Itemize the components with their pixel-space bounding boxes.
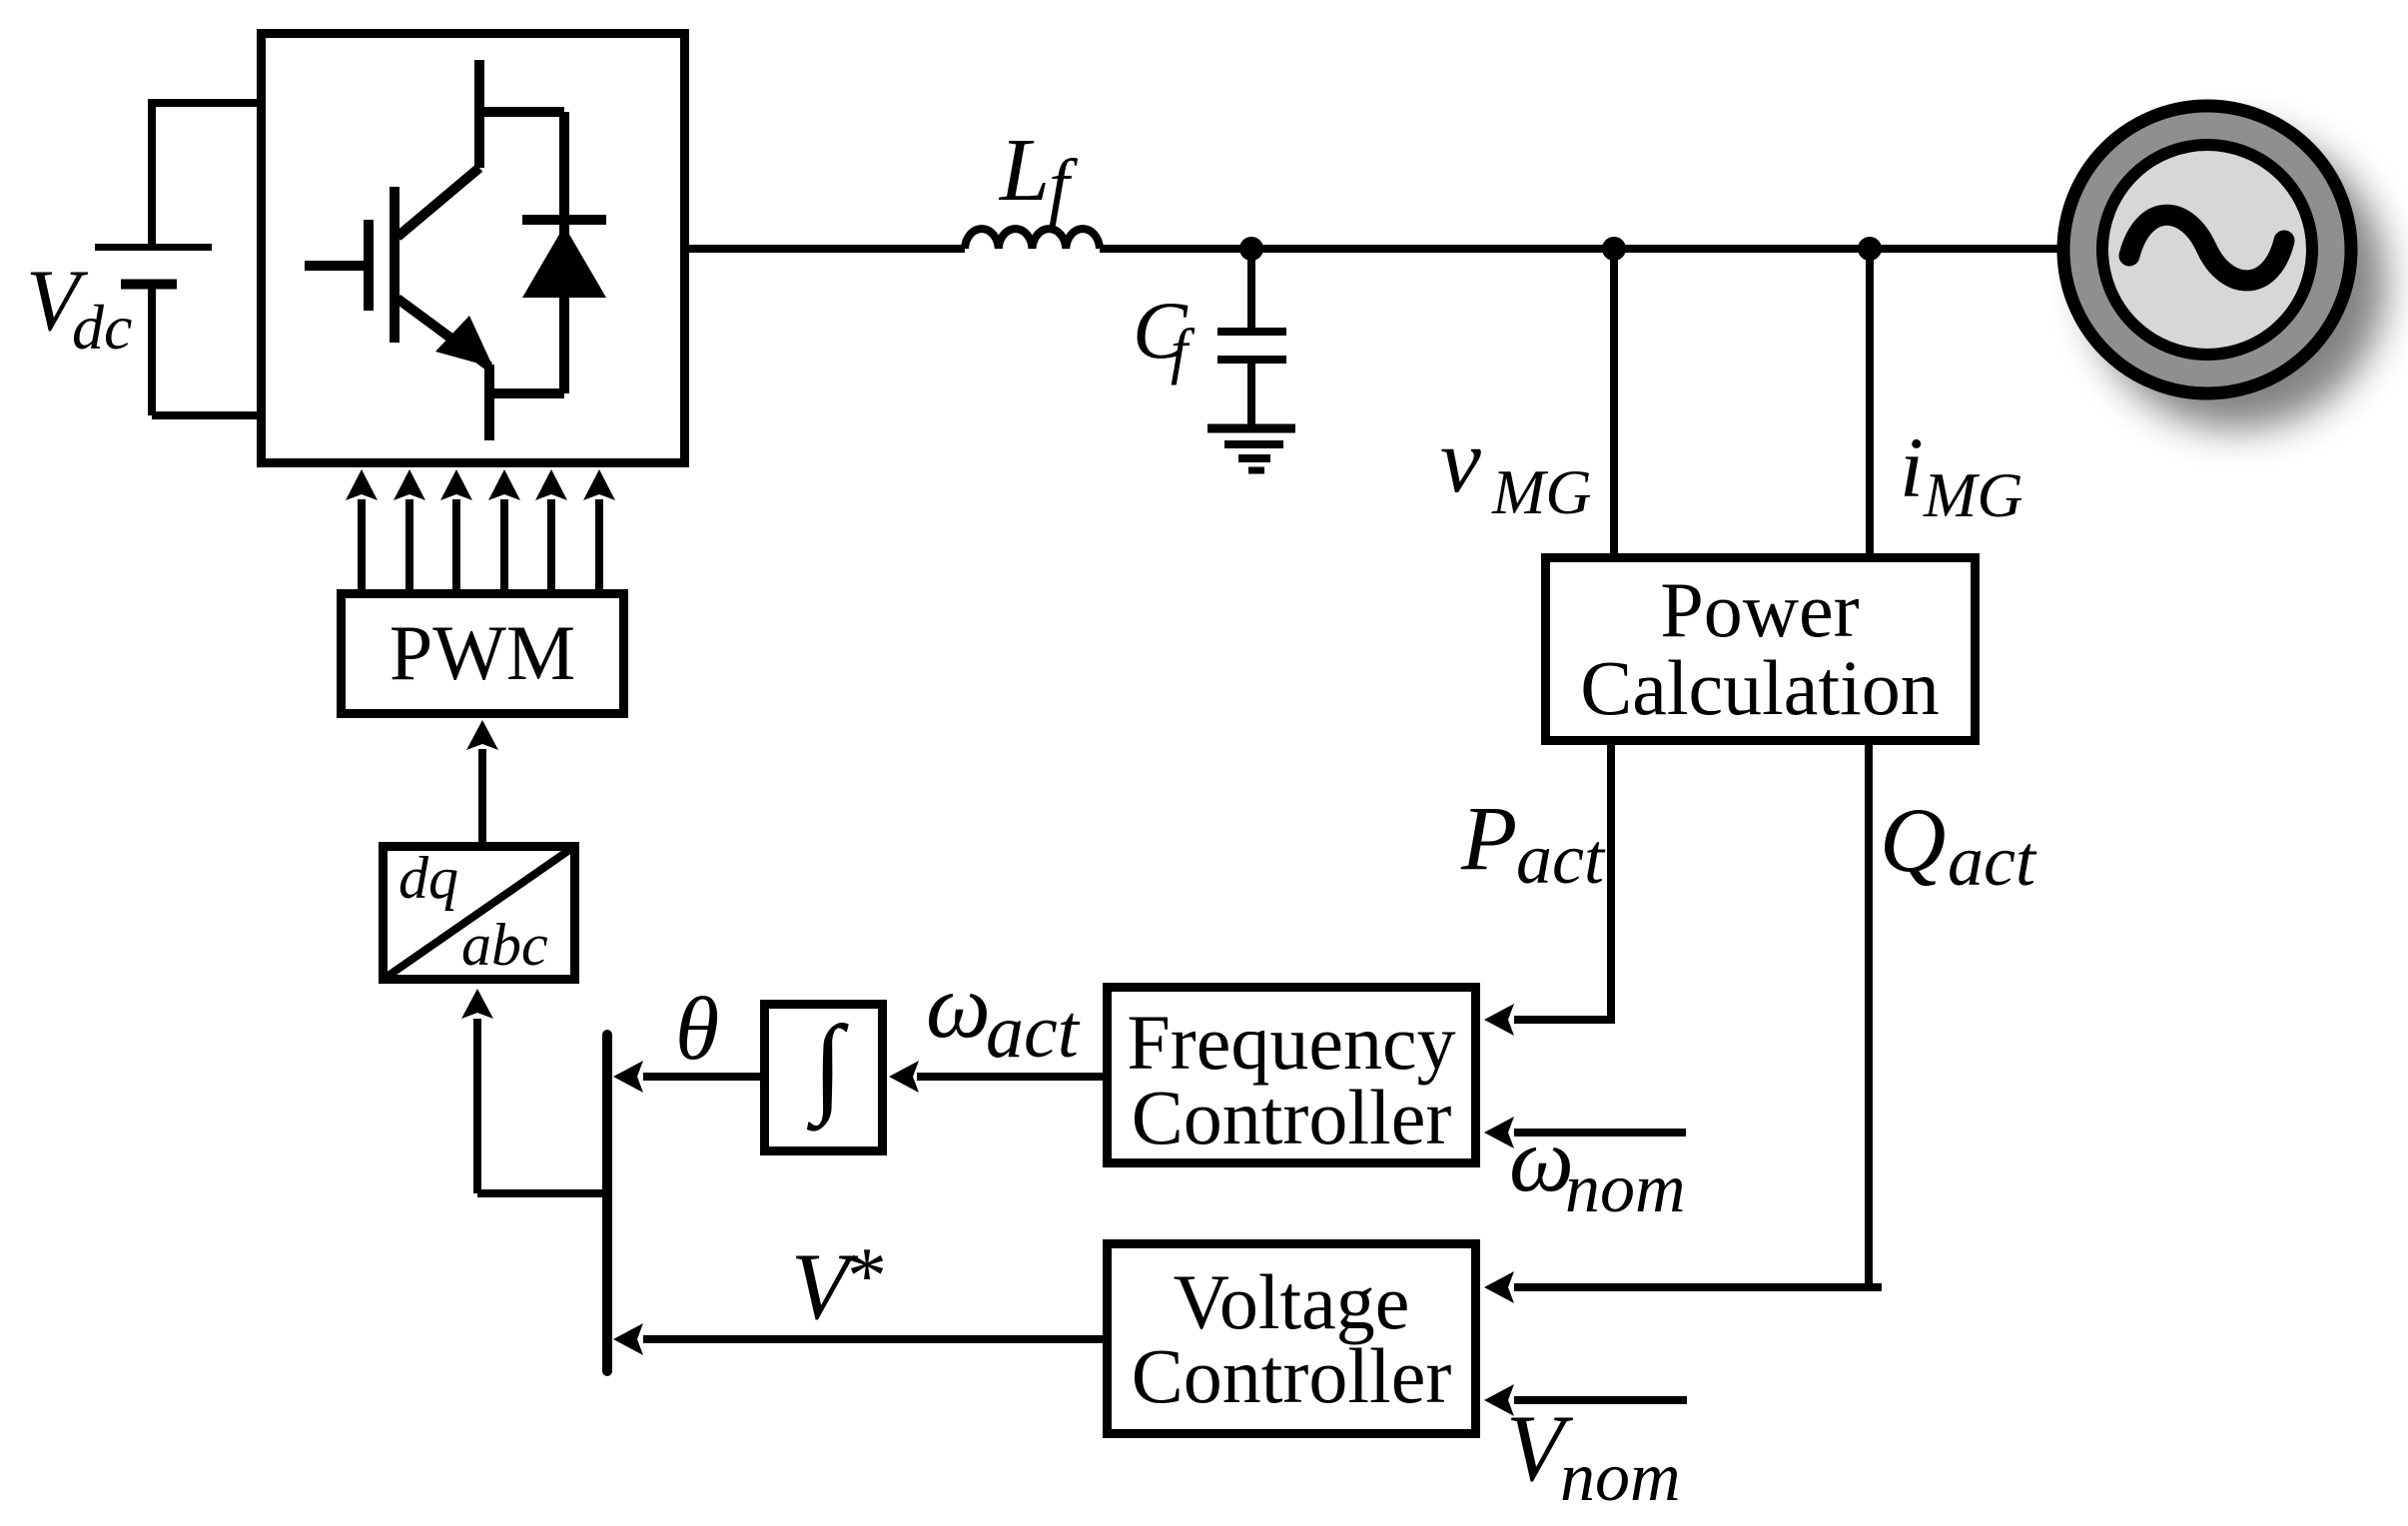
svg-text:Power: Power [1660,566,1859,653]
transistor Q1 emitter [398,299,489,440]
node B junction dot [1602,237,1626,261]
label dq [399,845,458,911]
svg-text:nom: nom [1560,1439,1681,1516]
label Vdc [26,253,132,363]
label Lf [998,121,1079,227]
diode D1 connection wires [479,112,564,393]
transistor Q1 gate bars [305,187,395,343]
wire node B to node C [1614,245,1870,253]
svg-text:ω: ω [926,955,991,1057]
svg-text:P: P [1460,787,1517,889]
wire bus to dq abc [477,1019,607,1193]
voltage controller box [1108,1244,1476,1434]
label Qact [1880,789,2037,901]
capacitor Cf bottom lead [1247,364,1255,424]
label theta [675,980,719,1079]
label iMG [1900,419,2023,530]
wire inductor to node A [1100,245,1251,253]
svg-text:act: act [1948,821,2037,901]
power calculation box [1546,558,1976,741]
dq abc transform box [384,847,575,980]
node A junction dot [1239,237,1263,261]
label omega act [926,955,1081,1074]
PWM box [342,594,624,714]
arrowhead into PWM [466,720,498,750]
grid AC source G1 inner circle [2102,145,2312,355]
capacitor Cf lead [1247,249,1255,328]
svg-text:f: f [1171,318,1196,385]
diode D1 cathode bar [522,215,606,225]
wire Qact output [1514,745,1882,1287]
PWM gate arrow 1 [358,499,366,589]
transistor Q1 emitter arrowhead [435,316,493,368]
label omega nom [1509,1109,1686,1227]
svg-text:Frequency: Frequency [1127,999,1455,1086]
svg-text:*: * [847,1232,887,1320]
label V star [791,1232,887,1339]
wire node C to grid source [1870,245,2059,253]
label abc [461,912,548,978]
grid AC source shadow [2088,132,2386,429]
svg-text:θ: θ [675,980,719,1079]
wire Vnom input [1514,1396,1687,1404]
wire vMG tap [1610,249,1618,553]
grid AC source G1 sine wave [2129,215,2284,281]
wire node A to node B [1251,245,1614,253]
arrowhead Vnom [1484,1384,1514,1416]
svg-text:L: L [998,121,1050,220]
arrowhead V star into bus [613,1323,643,1355]
inverter U1 box [262,34,685,463]
wire iMG tap [1866,249,1874,553]
wire omega act [917,1073,1103,1081]
svg-text:PWM: PWM [390,609,575,696]
wire Pact output [1514,745,1615,1020]
wire theta [643,1073,760,1081]
battery B1 plate long [95,244,212,251]
svg-text:act: act [986,990,1081,1074]
PWM gate arrow 5 [547,499,555,589]
PWM gate arrow 2 [405,499,413,589]
wire dq abc to PWM [478,749,486,842]
arrowhead into dq abc [461,989,493,1019]
svg-text:f: f [1049,145,1079,227]
label vMG [1440,409,1592,527]
svg-text:Controller: Controller [1132,1332,1452,1419]
label Vnom [1506,1395,1681,1516]
arrowhead Pact into frequency controller [1484,1004,1514,1036]
svg-text:abc: abc [461,912,548,978]
svg-text:dc: dc [72,292,132,363]
svg-text:Controller: Controller [1132,1074,1452,1160]
svg-text:nom: nom [1565,1150,1686,1227]
inductor Lf [965,229,1100,249]
wire omega nom input [1514,1129,1686,1137]
dq abc diagonal [383,846,575,980]
node C junction dot [1858,237,1882,261]
arrowhead Qact into voltage controller [1484,1271,1514,1303]
ground [1207,424,1295,433]
svg-text:Q: Q [1880,789,1946,891]
integrator box [765,1005,883,1151]
transistor Q1 IGBT collector [398,60,479,237]
arrowhead theta into bus [613,1061,643,1093]
bus line [602,1035,612,1371]
PWM gate arrow 3 [452,499,460,589]
arrowhead omega nom [1484,1117,1514,1148]
capacitor Cf plates [1217,332,1286,360]
svg-text:v: v [1440,409,1481,511]
svg-text:dq: dq [399,845,458,911]
wire inverter output [689,245,965,253]
PWM gate arrow 6 [595,499,603,589]
wire V star [643,1335,1103,1343]
diode D1 triangle [522,226,606,298]
svg-text:i: i [1900,419,1924,515]
battery B1 plate short [121,280,177,290]
integral sign [807,1004,849,1132]
PWM gate arrow 4 [500,499,508,589]
svg-text:act: act [1516,819,1606,899]
wire battery bottom jog [152,289,257,415]
svg-text:MG: MG [1491,456,1592,527]
label Cf [1133,285,1196,385]
svg-text:Calculation: Calculation [1580,644,1940,731]
svg-text:∫: ∫ [807,1004,849,1132]
grid AC source G1 outer ring [2063,106,2351,393]
svg-text:MG: MG [1923,459,2023,530]
label Pact [1460,787,1606,899]
frequency controller box [1108,988,1476,1163]
arrowhead omega act into integrator [889,1061,919,1093]
wire battery top jog [152,99,257,245]
